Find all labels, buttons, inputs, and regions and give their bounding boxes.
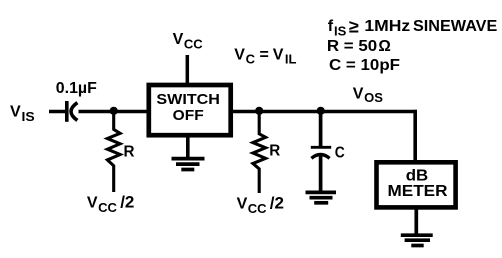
capacitor C1 curved plate bbox=[71, 103, 77, 121]
switch box U1 bbox=[149, 85, 231, 135]
svg-text:R: R bbox=[269, 143, 280, 160]
dB meter box M1 bbox=[377, 162, 456, 207]
svg-text:V: V bbox=[353, 85, 364, 102]
svg-text:V: V bbox=[10, 104, 21, 121]
resistor R1 bbox=[107, 111, 120, 192]
svg-text:R: R bbox=[124, 144, 135, 161]
svg-text:CC: CC bbox=[184, 37, 203, 52]
svg-text:C: C bbox=[335, 145, 345, 162]
svg-text:V: V bbox=[237, 196, 248, 213]
svg-text:OFF: OFF bbox=[173, 107, 204, 124]
wire capacitor C2 to ground bbox=[319, 154, 323, 193]
capacitor C2 top plate bbox=[311, 146, 331, 149]
svg-text:IS: IS bbox=[22, 109, 36, 124]
net label VCC/2 left bbox=[87, 193, 134, 215]
svg-text:1MHz: 1MHz bbox=[364, 18, 410, 35]
svg-text:V: V bbox=[87, 195, 98, 212]
wire capacitor to switch box bbox=[79, 110, 149, 114]
wire dB meter to ground bbox=[414, 206, 418, 235]
net label VCC top bbox=[173, 31, 204, 51]
ground symbol switch bbox=[172, 159, 205, 170]
wire corner down to dB meter bbox=[413, 110, 417, 164]
svg-text:CC: CC bbox=[248, 201, 267, 216]
svg-text:OS: OS bbox=[364, 90, 383, 105]
svg-text:CC: CC bbox=[98, 200, 117, 215]
wire VCC to switch box bbox=[186, 55, 190, 85]
net label VCC/2 right bbox=[237, 194, 284, 216]
svg-text:SINEWAVE: SINEWAVE bbox=[413, 18, 498, 35]
condition label fIS >= 1MHz SINEWAVE bbox=[328, 16, 498, 38]
svg-text:SWITCH: SWITCH bbox=[156, 91, 220, 108]
svg-text:0.1µF: 0.1µF bbox=[56, 80, 97, 97]
resistor R2 bbox=[253, 111, 266, 193]
junction node 3 bbox=[317, 107, 325, 115]
junction node 2 bbox=[255, 107, 263, 115]
condition label R = 50 ohm bbox=[327, 38, 391, 55]
svg-text:≥: ≥ bbox=[349, 16, 359, 36]
control label VC = VIL bbox=[234, 46, 296, 66]
svg-text:V: V bbox=[173, 31, 184, 48]
svg-text:f: f bbox=[328, 18, 334, 35]
wire switch box to ground bbox=[186, 135, 190, 159]
svg-text:/2: /2 bbox=[270, 194, 284, 213]
svg-text:IS: IS bbox=[334, 24, 347, 39]
capacitor C1 coupling 0.1uF left plate bbox=[65, 101, 69, 122]
junction node 1 bbox=[110, 107, 118, 115]
wire node 3 to capacitor C2 bbox=[319, 111, 323, 146]
svg-text:R = 50: R = 50 bbox=[327, 38, 377, 55]
svg-text:Ω: Ω bbox=[378, 38, 390, 55]
wire input left segment bbox=[49, 110, 66, 114]
svg-text:C = 10pF: C = 10pF bbox=[329, 57, 400, 74]
svg-text:V: V bbox=[234, 46, 245, 63]
wire switch box to corner bbox=[230, 110, 417, 114]
ground symbol capacitor bbox=[306, 192, 337, 202]
svg-text:/2: /2 bbox=[120, 193, 134, 212]
svg-text:C: C bbox=[246, 52, 256, 67]
svg-text:=: = bbox=[260, 46, 269, 63]
ground symbol dB meter bbox=[401, 235, 433, 245]
svg-text:METER: METER bbox=[388, 183, 448, 200]
svg-text:IL: IL bbox=[285, 52, 297, 67]
svg-text:V: V bbox=[273, 46, 284, 63]
capacitor C2 curved plate bbox=[311, 155, 329, 159]
net label VIS bbox=[10, 104, 35, 124]
net label VOS bbox=[353, 85, 383, 105]
